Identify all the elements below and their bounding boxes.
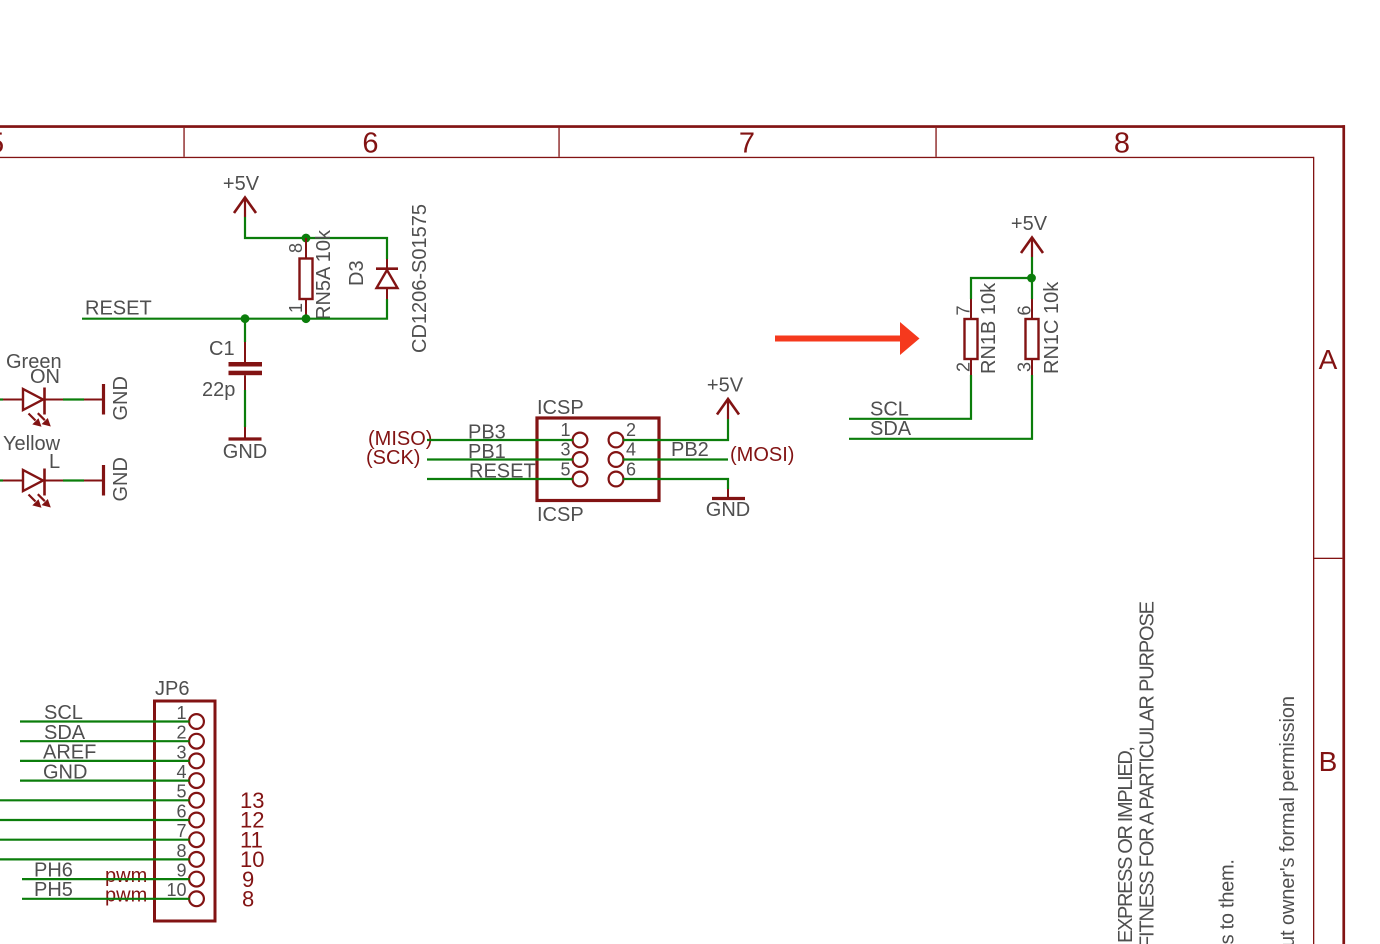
junction node RESET/C1 [241, 314, 250, 323]
svg-text:RN5A 10k: RN5A 10k [313, 229, 335, 320]
wire RN1C pin 3 to SDA [849, 375, 1032, 439]
JP6 pin 9 [176, 861, 203, 887]
ICSP pin 3 [560, 440, 587, 467]
wire RN1B pin 2 to SCL [849, 375, 971, 419]
svg-text:L: L [49, 451, 60, 473]
wire net 13 to JP6 pin 5 [0, 799, 190, 801]
svg-text:1: 1 [176, 703, 186, 723]
LED yellow L [0, 433, 63, 508]
svg-text:3: 3 [560, 440, 570, 460]
svg-text:D3: D3 [346, 260, 368, 286]
svg-text:(MOSI): (MOSI) [730, 444, 794, 466]
svg-text:3: 3 [1015, 362, 1035, 372]
power +5V (ICSP) [707, 375, 744, 420]
svg-text:2: 2 [176, 723, 186, 743]
power +5V (RN1B/RN1C) [1011, 213, 1048, 257]
JP6 pin 4 [176, 762, 203, 788]
svg-text:3: 3 [176, 742, 186, 762]
ICSP pin 4 [609, 440, 636, 467]
wire net 10 to JP6 pin 8 [0, 858, 190, 860]
wire +5V to RN5A top node [245, 217, 306, 238]
wire RESET to ICSP pin 5 [427, 478, 573, 480]
wire PH5 to JP6 pin 10 [22, 898, 190, 900]
resistor RN1C 10k [1015, 281, 1064, 375]
svg-text:EXPRESS OR IMPLIED,: EXPRESS OR IMPLIED, [1115, 746, 1137, 943]
JP6 pin 1 [176, 703, 203, 729]
ICSP pin 5 [560, 460, 587, 487]
wire net 11 to JP6 pin 7 [0, 839, 190, 841]
svg-text:ON: ON [30, 366, 60, 388]
svg-text:ICSP: ICSP [537, 397, 584, 419]
svg-text:22p: 22p [202, 379, 235, 401]
net label PB2 (MOSI) [671, 439, 794, 466]
JP6 pin 3 [176, 742, 203, 768]
junction node RN1B/RN1C [1027, 274, 1036, 283]
resistor RN1B 10k [954, 282, 1001, 375]
net label (SCK) PB1 [366, 441, 506, 469]
svg-text:5: 5 [560, 460, 570, 480]
svg-text:A: A [1319, 344, 1338, 375]
net label PH5 pwm [34, 879, 147, 907]
svg-text:B: B [1319, 746, 1338, 777]
svg-text:6: 6 [626, 460, 636, 480]
wire SCL to JP6 pin 1 [20, 720, 190, 722]
capacitor C1 22p [202, 338, 262, 401]
JP6 pin 10 [166, 880, 203, 906]
svg-text:8: 8 [242, 887, 254, 912]
resistor RN5A 10k [286, 229, 335, 320]
svg-text:2: 2 [954, 362, 974, 372]
svg-text:2: 2 [626, 420, 636, 440]
svg-text:GND: GND [223, 441, 267, 463]
junction node RN5A pin 1 [302, 314, 311, 323]
ICSP pin 2 [609, 420, 636, 447]
wire PH6 to JP6 pin 9 [22, 878, 190, 880]
ICSP pin 1 [560, 420, 587, 447]
svg-text:(SCK): (SCK) [366, 447, 420, 469]
svg-text:ses to them.: ses to them. [1217, 859, 1239, 944]
wire node to RN1B pin 7 [971, 278, 1032, 299]
annotation red arrow [775, 322, 920, 355]
svg-text:pwm: pwm [105, 885, 147, 907]
wire node to RN1C pin 6 [1031, 278, 1033, 299]
ground GND (LED2, rotated) [84, 457, 132, 501]
wire ICSP pin 2 to +5V [623, 419, 728, 440]
power +5V (RN5A pull-up) [223, 173, 260, 217]
svg-text:PB2: PB2 [671, 439, 709, 461]
LED green ON [0, 351, 63, 427]
svg-text:RN1C 10k: RN1C 10k [1041, 281, 1063, 374]
wire LED2 to GND [63, 479, 84, 481]
svg-text:7: 7 [176, 821, 186, 841]
wire ICSP pin 4 PB2 [623, 458, 728, 460]
svg-text:C1: C1 [209, 338, 235, 360]
svg-text:5: 5 [0, 127, 4, 159]
junction node RN5A pin 8 [302, 234, 311, 243]
svg-text:6: 6 [362, 127, 378, 159]
svg-text:4: 4 [176, 762, 186, 782]
wire AREF to JP6 pin 3 [20, 760, 190, 762]
wire PB1 to ICSP pin 3 [427, 458, 573, 460]
svg-text:4: 4 [626, 440, 636, 460]
JP6 pin 2 [176, 723, 203, 749]
wire C1 to GND [244, 390, 246, 427]
wire ICSP pin 6 to GND [623, 479, 728, 489]
svg-text:out owner's formal permission: out owner's formal permission [1277, 696, 1299, 944]
svg-text:5: 5 [176, 782, 186, 802]
ground GND (ICSP) [706, 489, 750, 521]
wire net 12 to JP6 pin 6 [0, 819, 190, 821]
svg-text:SDA: SDA [870, 418, 912, 440]
net label (MISO) PB3 [368, 422, 506, 451]
JP6 pin 8 [176, 841, 203, 867]
svg-text:GND: GND [110, 457, 132, 501]
wire D3 anode to RESET node [306, 299, 387, 319]
svg-text:1: 1 [560, 420, 570, 440]
svg-text:JP6: JP6 [155, 678, 189, 700]
net label PH6 pwm [34, 860, 147, 888]
svg-text:CD1206-S01575: CD1206-S01575 [409, 204, 431, 353]
JP6 pin 6 [176, 801, 203, 827]
svg-text:ICSP: ICSP [537, 504, 584, 526]
svg-text:7: 7 [739, 127, 755, 159]
svg-text:8: 8 [286, 243, 306, 253]
svg-text:1: 1 [286, 303, 306, 313]
JP6 pin 7 [176, 821, 203, 847]
svg-text:GND: GND [110, 376, 132, 420]
wire node to RN5A pin1 [245, 318, 306, 320]
JP6 pin 5 [176, 782, 203, 808]
svg-text:+5V: +5V [707, 375, 744, 397]
svg-text:RN1B 10k: RN1B 10k [978, 282, 1000, 374]
svg-text:pwm: pwm [105, 865, 147, 887]
svg-text:+5V: +5V [223, 173, 260, 195]
ground GND (C1) [223, 427, 267, 463]
wire RESET net [82, 318, 245, 320]
wire +5V to RN1 node [1031, 257, 1033, 278]
svg-text:9: 9 [176, 861, 186, 881]
svg-text:+5V: +5V [1011, 213, 1048, 235]
wire LED1 to GND [63, 398, 84, 400]
svg-text:8: 8 [1114, 127, 1130, 159]
wire PB3 to ICSP pin 1 [427, 439, 573, 441]
wire RESET node to C1 [244, 319, 246, 342]
svg-text:8: 8 [176, 841, 186, 861]
wire GND to JP6 pin 4 [20, 779, 190, 781]
ground GND (LED1, rotated) [84, 376, 132, 420]
wire SDA to JP6 pin 2 [20, 740, 190, 742]
svg-text:7: 7 [954, 305, 974, 315]
svg-text:GND: GND [706, 499, 750, 521]
svg-text:6: 6 [176, 801, 186, 821]
connector ICSP header [537, 397, 659, 526]
svg-text:FITNESS FOR A PARTICULAR PURPO: FITNESS FOR A PARTICULAR PURPOSE [1137, 601, 1159, 944]
ICSP pin 6 [609, 460, 636, 487]
wire node to D3 cathode [306, 238, 387, 259]
svg-text:10: 10 [166, 880, 186, 900]
connector JP6 [155, 678, 216, 921]
svg-text:RESET: RESET [85, 298, 152, 320]
diode D3 CD1206-S01575 [346, 204, 431, 353]
svg-text:6: 6 [1015, 305, 1035, 315]
